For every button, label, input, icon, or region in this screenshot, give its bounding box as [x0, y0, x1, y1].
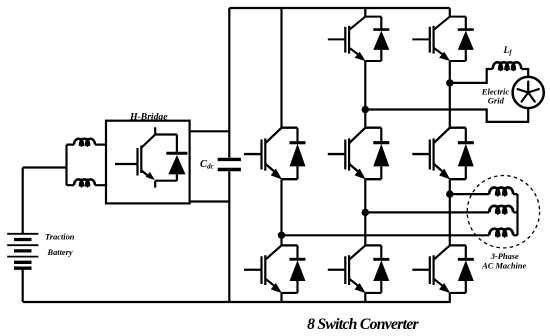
svg-text:Cdc: Cdc	[200, 159, 214, 171]
svg-text:H-Bridge: H-Bridge	[129, 112, 168, 123]
svg-text:8 Switch Converter: 8 Switch Converter	[307, 316, 419, 333]
svg-text:Battery: Battery	[47, 248, 73, 257]
svg-text:Traction: Traction	[45, 232, 75, 241]
svg-text:AC Machine: AC Machine	[481, 261, 526, 270]
svg-text:Lf: Lf	[503, 45, 513, 57]
svg-text:Grid: Grid	[488, 95, 505, 105]
svg-text:3-Phase: 3-Phase	[490, 252, 519, 261]
